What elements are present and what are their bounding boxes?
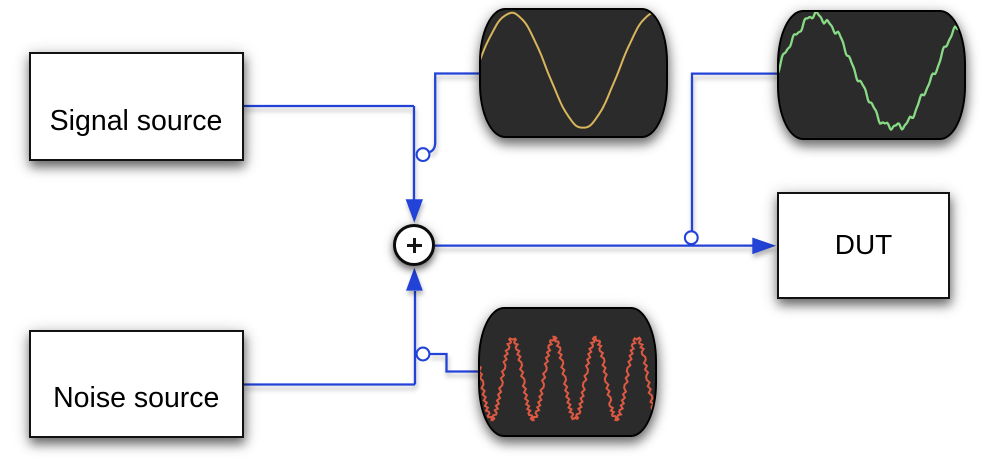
- arrowhead into sum junction top: [406, 199, 423, 222]
- wire: probe link from tap T1 up to Scope1: [429, 74, 480, 153]
- tap T2 circle (output probe): [685, 231, 698, 244]
- scope display 1 (signal, yellow sine): [479, 8, 668, 138]
- waveform: red high-frequency sine trace: [477, 336, 656, 419]
- wire: corner up toward sum junction: [414, 291, 416, 385]
- block Signal source: [29, 52, 244, 161]
- wire: Signal source output to corner node: [243, 105, 414, 107]
- scope display 2 (signal+noise, green trace): [777, 10, 966, 140]
- arrowhead into DUT: [752, 238, 776, 255]
- plus sign: [407, 244, 422, 247]
- sum junction: [393, 224, 435, 266]
- arrowhead into sum junction bottom: [406, 268, 423, 291]
- wire: Noise source output to corner node: [244, 383, 415, 385]
- wire: corner down toward sum junction: [413, 106, 415, 200]
- waveform: green noisy sine trace: [778, 11, 963, 129]
- wire: sum junction output to DUT: [435, 244, 753, 246]
- tap T3 circle (noise probe): [417, 348, 430, 361]
- wire: tap T3 step into Scope3: [429, 354, 479, 372]
- scope display 3 (noise, red trace): [478, 307, 657, 437]
- tap T1 circle (signal probe): [417, 148, 430, 161]
- block DUT: [777, 192, 950, 299]
- block Noise source: [29, 330, 245, 438]
- waveform: yellow sine trace: [480, 12, 666, 127]
- wire: tap T2 up and right into Scope2: [692, 74, 778, 232]
